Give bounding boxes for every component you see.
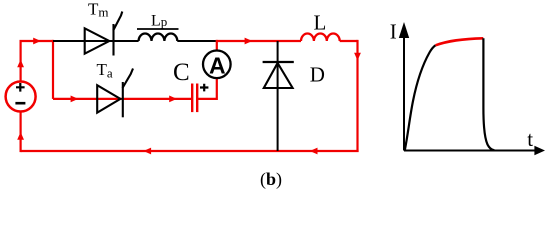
wire row 2 cap to corner and up to ammeter: [197, 78, 217, 100]
core bar of Lp: [137, 28, 179, 30]
ammeter A: [203, 51, 231, 79]
voltage source V1: [6, 82, 36, 112]
arrow right on top wire before D: [245, 38, 253, 45]
wire right rail: [356, 40, 358, 152]
wire black Tm to Lp: [114, 40, 139, 42]
arrow left on bottom wire (left): [143, 148, 151, 155]
svg-text:(b): (b): [260, 169, 282, 190]
wire top-left horizontal: [20, 40, 54, 42]
svg-text:t: t: [527, 127, 533, 151]
current plateau (red): [436, 38, 484, 45]
arrow right on row 2 before C: [169, 96, 177, 103]
svg-text:C: C: [173, 59, 190, 86]
wire junction drop to row 2: [52, 40, 54, 99]
wire bottom: [21, 150, 359, 152]
svg-text:A: A: [209, 52, 226, 78]
graph X axis arrowhead: [534, 146, 545, 155]
svg-text:Tm: Tm: [88, 0, 109, 19]
inductor Lp: [139, 33, 178, 41]
arrow right on row 2 before Ta: [71, 96, 79, 103]
arrow left on bottom wire (right): [310, 148, 318, 155]
arrow up on left rail bottom: [17, 132, 24, 140]
graph X axis: [404, 150, 536, 152]
current rise curve (black): [405, 45, 436, 150]
graph Y axis: [403, 36, 405, 151]
wire top right segment: [216, 40, 301, 42]
capacitor C plates: [192, 84, 197, 113]
svg-text:Ta: Ta: [97, 60, 113, 81]
svg-text:D: D: [310, 63, 325, 87]
wire left rail bottom: [20, 112, 22, 153]
thyristor Tm: [85, 12, 123, 56]
wire left rail top: [20, 41, 22, 81]
arrow up on left rail top: [17, 60, 24, 68]
wire black Lp to node: [177, 40, 215, 42]
inductor L: [301, 33, 340, 41]
plus polarity of C: [200, 84, 208, 92]
wire L to right corner: [340, 40, 358, 42]
current fall curve (black): [483, 38, 494, 150]
graph Y axis arrowhead: [399, 22, 409, 38]
wire ammeter top stub: [216, 40, 218, 51]
diode D vertical lead: [277, 41, 279, 151]
svg-text:L: L: [314, 10, 327, 34]
arrow right on top-left wire: [33, 38, 41, 45]
thyristor Ta: [97, 69, 133, 118]
wire row 2 left segment: [53, 98, 192, 100]
svg-text:I: I: [390, 19, 397, 43]
wire black top to Tm: [53, 40, 114, 42]
arrow down on right rail: [354, 53, 361, 61]
diode D: [263, 62, 294, 88]
svg-text:Lp: Lp: [151, 12, 167, 29]
